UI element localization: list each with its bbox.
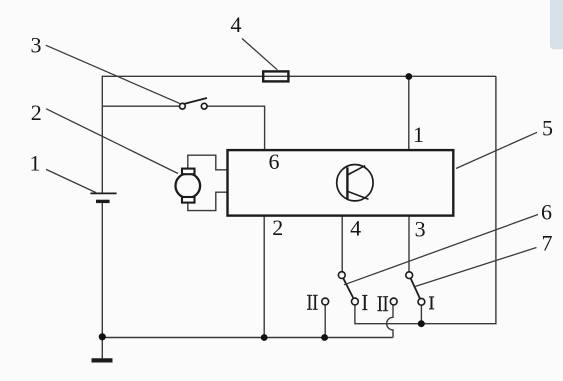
- junction: bottom bus left (battery/ground): [99, 333, 106, 340]
- motor bottom brush: [182, 197, 195, 203]
- wire: bottom ground bus: [102, 337, 393, 339]
- wire: top horizontal bus: [102, 75, 496, 77]
- leader line for label 1: [46, 169, 96, 192]
- position mark I (switch 6): [362, 295, 367, 309]
- leader line for label 6: [344, 215, 538, 285]
- wire: motor upper loop to box: [188, 155, 227, 170]
- svg-text:6: 6: [269, 149, 280, 174]
- ground: [92, 338, 113, 361]
- leader line for label 3: [46, 45, 181, 104]
- svg-text:4: 4: [231, 12, 242, 37]
- wire: switch 3 feed from left vertical: [102, 105, 179, 107]
- wire: terminal 2 drop to bottom bus: [263, 216, 265, 338]
- wire: left vertical (battery branch lower): [101, 202, 103, 338]
- svg-text:2: 2: [31, 100, 42, 125]
- switch 3 (ignition switch, open): [180, 98, 208, 109]
- leader line for label 4: [242, 39, 277, 70]
- switch 6 (wiper mode switch, pole with I / II contacts): [322, 272, 358, 305]
- junction: top bus / terminal 1: [405, 73, 412, 80]
- position mark I (switch 7): [429, 297, 434, 309]
- motor top brush: [182, 169, 195, 175]
- svg-text:1: 1: [30, 150, 41, 175]
- position mark II (switch 6): [307, 295, 318, 309]
- svg-text:1: 1: [413, 122, 424, 147]
- fuse 4: [263, 71, 288, 81]
- blue page-corner block: [550, 0, 563, 49]
- wire: switch6 pole I output to right line: [354, 305, 356, 324]
- svg-text:2: 2: [272, 215, 283, 240]
- wire: motor lower loop to box: [188, 192, 227, 210]
- junction: bottom bus / switch6 II contact: [321, 334, 328, 341]
- wire: switch 3 to box terminal 6: [207, 106, 265, 149]
- svg-text:3: 3: [415, 217, 426, 242]
- wire: terminal 4 drop to switch 6: [341, 216, 343, 271]
- wire: switch6 II contact to bottom bus: [324, 305, 326, 338]
- leader line for label 2: [46, 109, 178, 174]
- wire: switch7 pole output drop: [420, 305, 422, 323]
- svg-text:5: 5: [542, 116, 553, 141]
- position mark II (switch 7): [377, 297, 388, 311]
- svg-text:7: 7: [542, 231, 553, 256]
- wire: terminal 1 drop from top bus: [408, 76, 410, 149]
- wire: right vertical: [355, 76, 496, 323]
- wire: terminal 3 drop to switch 7: [408, 216, 410, 272]
- motor body: [176, 173, 201, 198]
- junction: bottom bus / terminal 2: [261, 334, 268, 341]
- leader line for label 7: [414, 248, 537, 288]
- svg-text:6: 6: [541, 199, 552, 224]
- battery 1 (cell GB): [90, 193, 116, 201]
- wire: left vertical (battery branch upper): [101, 76, 103, 193]
- leader line for label 5: [456, 132, 537, 168]
- motor 2 (wiper motor): [176, 155, 228, 210]
- junction: right line / switch7 output: [418, 320, 425, 327]
- svg-text:3: 3: [31, 33, 42, 58]
- svg-text:4: 4: [350, 216, 361, 241]
- wire: switch7 II contact with hop over crossing: [387, 305, 393, 337]
- switch 7 (second mode switch, pole with I / II contacts): [390, 272, 424, 305]
- control unit 5 (relay box): [228, 150, 454, 216]
- transistor inside control unit: [337, 165, 373, 201]
